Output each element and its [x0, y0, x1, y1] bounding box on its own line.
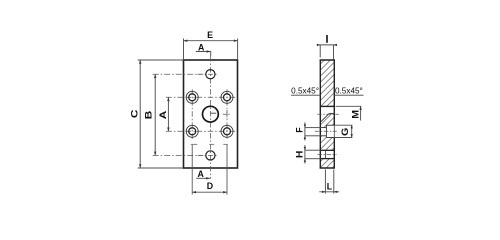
side view edge y150.3 — [320, 149, 334, 151]
dimension H line — [304, 145, 306, 164]
dimension C line — [139, 60, 141, 168]
dimension E arrow left — [184, 40, 188, 42]
hole row2 centerline — [186, 130, 236, 132]
label I — [326, 35, 328, 43]
dimension A top arrow — [207, 50, 211, 52]
dimension L arrow right — [334, 191, 337, 193]
dimension D extension left — [191, 145, 193, 195]
dimension L arrow left — [322, 191, 325, 193]
dimension D extension right — [226, 145, 228, 195]
bottom pilot hole — [206, 151, 215, 160]
dimension A left extension bottom — [166, 130, 186, 132]
bolt hole bottom-right inner — [224, 128, 231, 135]
svg-text:L: L — [327, 182, 333, 192]
side view material block1 — [320, 60, 334, 106]
dimension G line — [351, 125, 353, 137]
side view right face across slot — [333, 125, 335, 137]
side view material middle lower — [320, 136, 334, 151]
bolt hole bottom-left inner — [189, 128, 196, 135]
dimension G arrow top — [351, 125, 353, 128]
column tick right — [223, 143, 228, 145]
dimension B line — [154, 74, 156, 155]
center port tick — [210, 112, 216, 114]
dimension I arrow left — [317, 44, 320, 46]
svg-text:A: A — [198, 169, 205, 179]
center tick — [209, 143, 214, 145]
dimension E extension left — [183, 39, 185, 60]
svg-text:0.5x45°: 0.5x45° — [291, 87, 319, 96]
dimension B extension bottom — [153, 154, 204, 156]
dimension M line — [360, 106, 362, 120]
dimension H extension top — [305, 149, 321, 151]
top pilot hole — [206, 70, 215, 79]
svg-text:D: D — [207, 181, 213, 191]
svg-text:E: E — [207, 30, 213, 40]
dimension I line — [317, 44, 337, 46]
side view outline top — [320, 59, 335, 61]
dimension I arrow right — [334, 44, 337, 46]
dimension C arrow top — [139, 60, 141, 64]
side view G slot top edge — [326, 124, 334, 126]
bolt hole bottom-right outer — [221, 125, 233, 137]
dimension H arrow top — [304, 147, 306, 150]
dimension I extension right — [333, 45, 335, 60]
dimension E arrow right — [234, 40, 238, 42]
dimension C extension bottom — [138, 167, 183, 169]
dimension C extension top — [138, 59, 183, 61]
side centerline y114 — [317, 113, 339, 115]
chamfer leader left — [291, 94, 320, 96]
side view right face lower — [333, 138, 335, 169]
right column centerline — [226, 89, 228, 139]
top hole centerline — [198, 73, 219, 75]
side view F hole bottom edge — [320, 135, 326, 137]
svg-text:0.5x45°: 0.5x45° — [335, 87, 363, 96]
dimension G arrow bottom — [351, 134, 353, 137]
svg-text:H: H — [295, 151, 305, 158]
dimension C arrow bottom — [139, 164, 141, 168]
dimension I extension left — [319, 45, 321, 58]
bolt hole bottom-left outer — [186, 125, 198, 137]
bolt hole top-left outer — [186, 91, 198, 103]
dimension F extension bottom — [305, 135, 321, 137]
dimension B arrow bottom — [154, 152, 156, 156]
dimension F arrow bottom — [304, 136, 306, 139]
dimension D arrow right — [223, 191, 227, 193]
svg-text:G: G — [341, 128, 351, 136]
svg-text:B: B — [145, 110, 154, 119]
bolt hole top-right inner — [224, 94, 231, 101]
dimension E line — [184, 40, 238, 42]
side view F hole top edge — [320, 127, 326, 129]
side view G slot bottom edge — [326, 137, 334, 139]
hole row1 centerline — [186, 96, 236, 98]
side view G slot left wall — [325, 125, 327, 137]
svg-text:F: F — [295, 127, 305, 133]
side view port bottom edge right — [329, 112, 334, 114]
dimension M extension — [336, 105, 362, 107]
svg-text:C: C — [131, 109, 140, 118]
bolt hole top-right outer — [221, 91, 233, 103]
side view port conical edge — [320, 113, 329, 122]
bottom hole centerline — [198, 154, 219, 156]
side view right face upper — [333, 60, 335, 125]
dimension H extension bottom — [305, 158, 321, 160]
side view edge y158.6 — [320, 158, 334, 160]
side view H step vertical — [325, 150, 327, 158]
dimension A top line — [196, 52, 211, 57]
side centerline y154 — [318, 153, 337, 155]
dimension D arrow left — [192, 191, 196, 193]
dimension D line — [192, 191, 227, 193]
dimension G extension bottom — [335, 137, 353, 139]
dimension A left arrow top — [167, 97, 169, 101]
front view plate outline — [184, 60, 238, 168]
svg-text:M: M — [351, 110, 361, 119]
dimension L extension right — [333, 170, 335, 194]
dimension F arrow top — [304, 124, 306, 127]
svg-text:A: A — [198, 42, 205, 52]
dimension B extension top — [153, 73, 204, 75]
dimension A bottom line — [196, 177, 210, 179]
center port circle — [203, 106, 219, 122]
dimension A left extension top — [166, 96, 186, 98]
side view left face — [319, 60, 321, 168]
dimension L line — [319, 191, 339, 193]
dimension F line — [304, 122, 306, 140]
dimension H arrow bottom — [304, 159, 306, 162]
vertical centerline — [209, 56, 211, 179]
dimension M arrow — [359, 106, 361, 110]
mid cross horizontal — [223, 113, 231, 115]
dimension A left arrow bottom — [167, 128, 169, 132]
dimension L extension left — [324, 170, 326, 194]
column tick left — [191, 143, 198, 145]
dimension E extension right — [237, 39, 239, 60]
chamfer leader right — [334, 94, 363, 96]
side view outline bottom — [320, 167, 335, 169]
side view material block4 — [320, 159, 334, 168]
mid cross vertical — [226, 110, 228, 118]
dimension A left line — [167, 97, 169, 131]
dimension B arrow top — [154, 74, 156, 78]
side centerline y131 — [315, 130, 337, 132]
dimension A bottom arrow — [206, 177, 210, 179]
dimension G extension top — [335, 124, 353, 126]
svg-text:A: A — [159, 110, 168, 119]
side view edge y106 — [320, 105, 334, 107]
bolt hole top-left inner — [189, 94, 196, 101]
left column centerline — [191, 89, 193, 139]
side view material middle upper — [320, 113, 334, 127]
dimension F extension top — [305, 127, 321, 129]
